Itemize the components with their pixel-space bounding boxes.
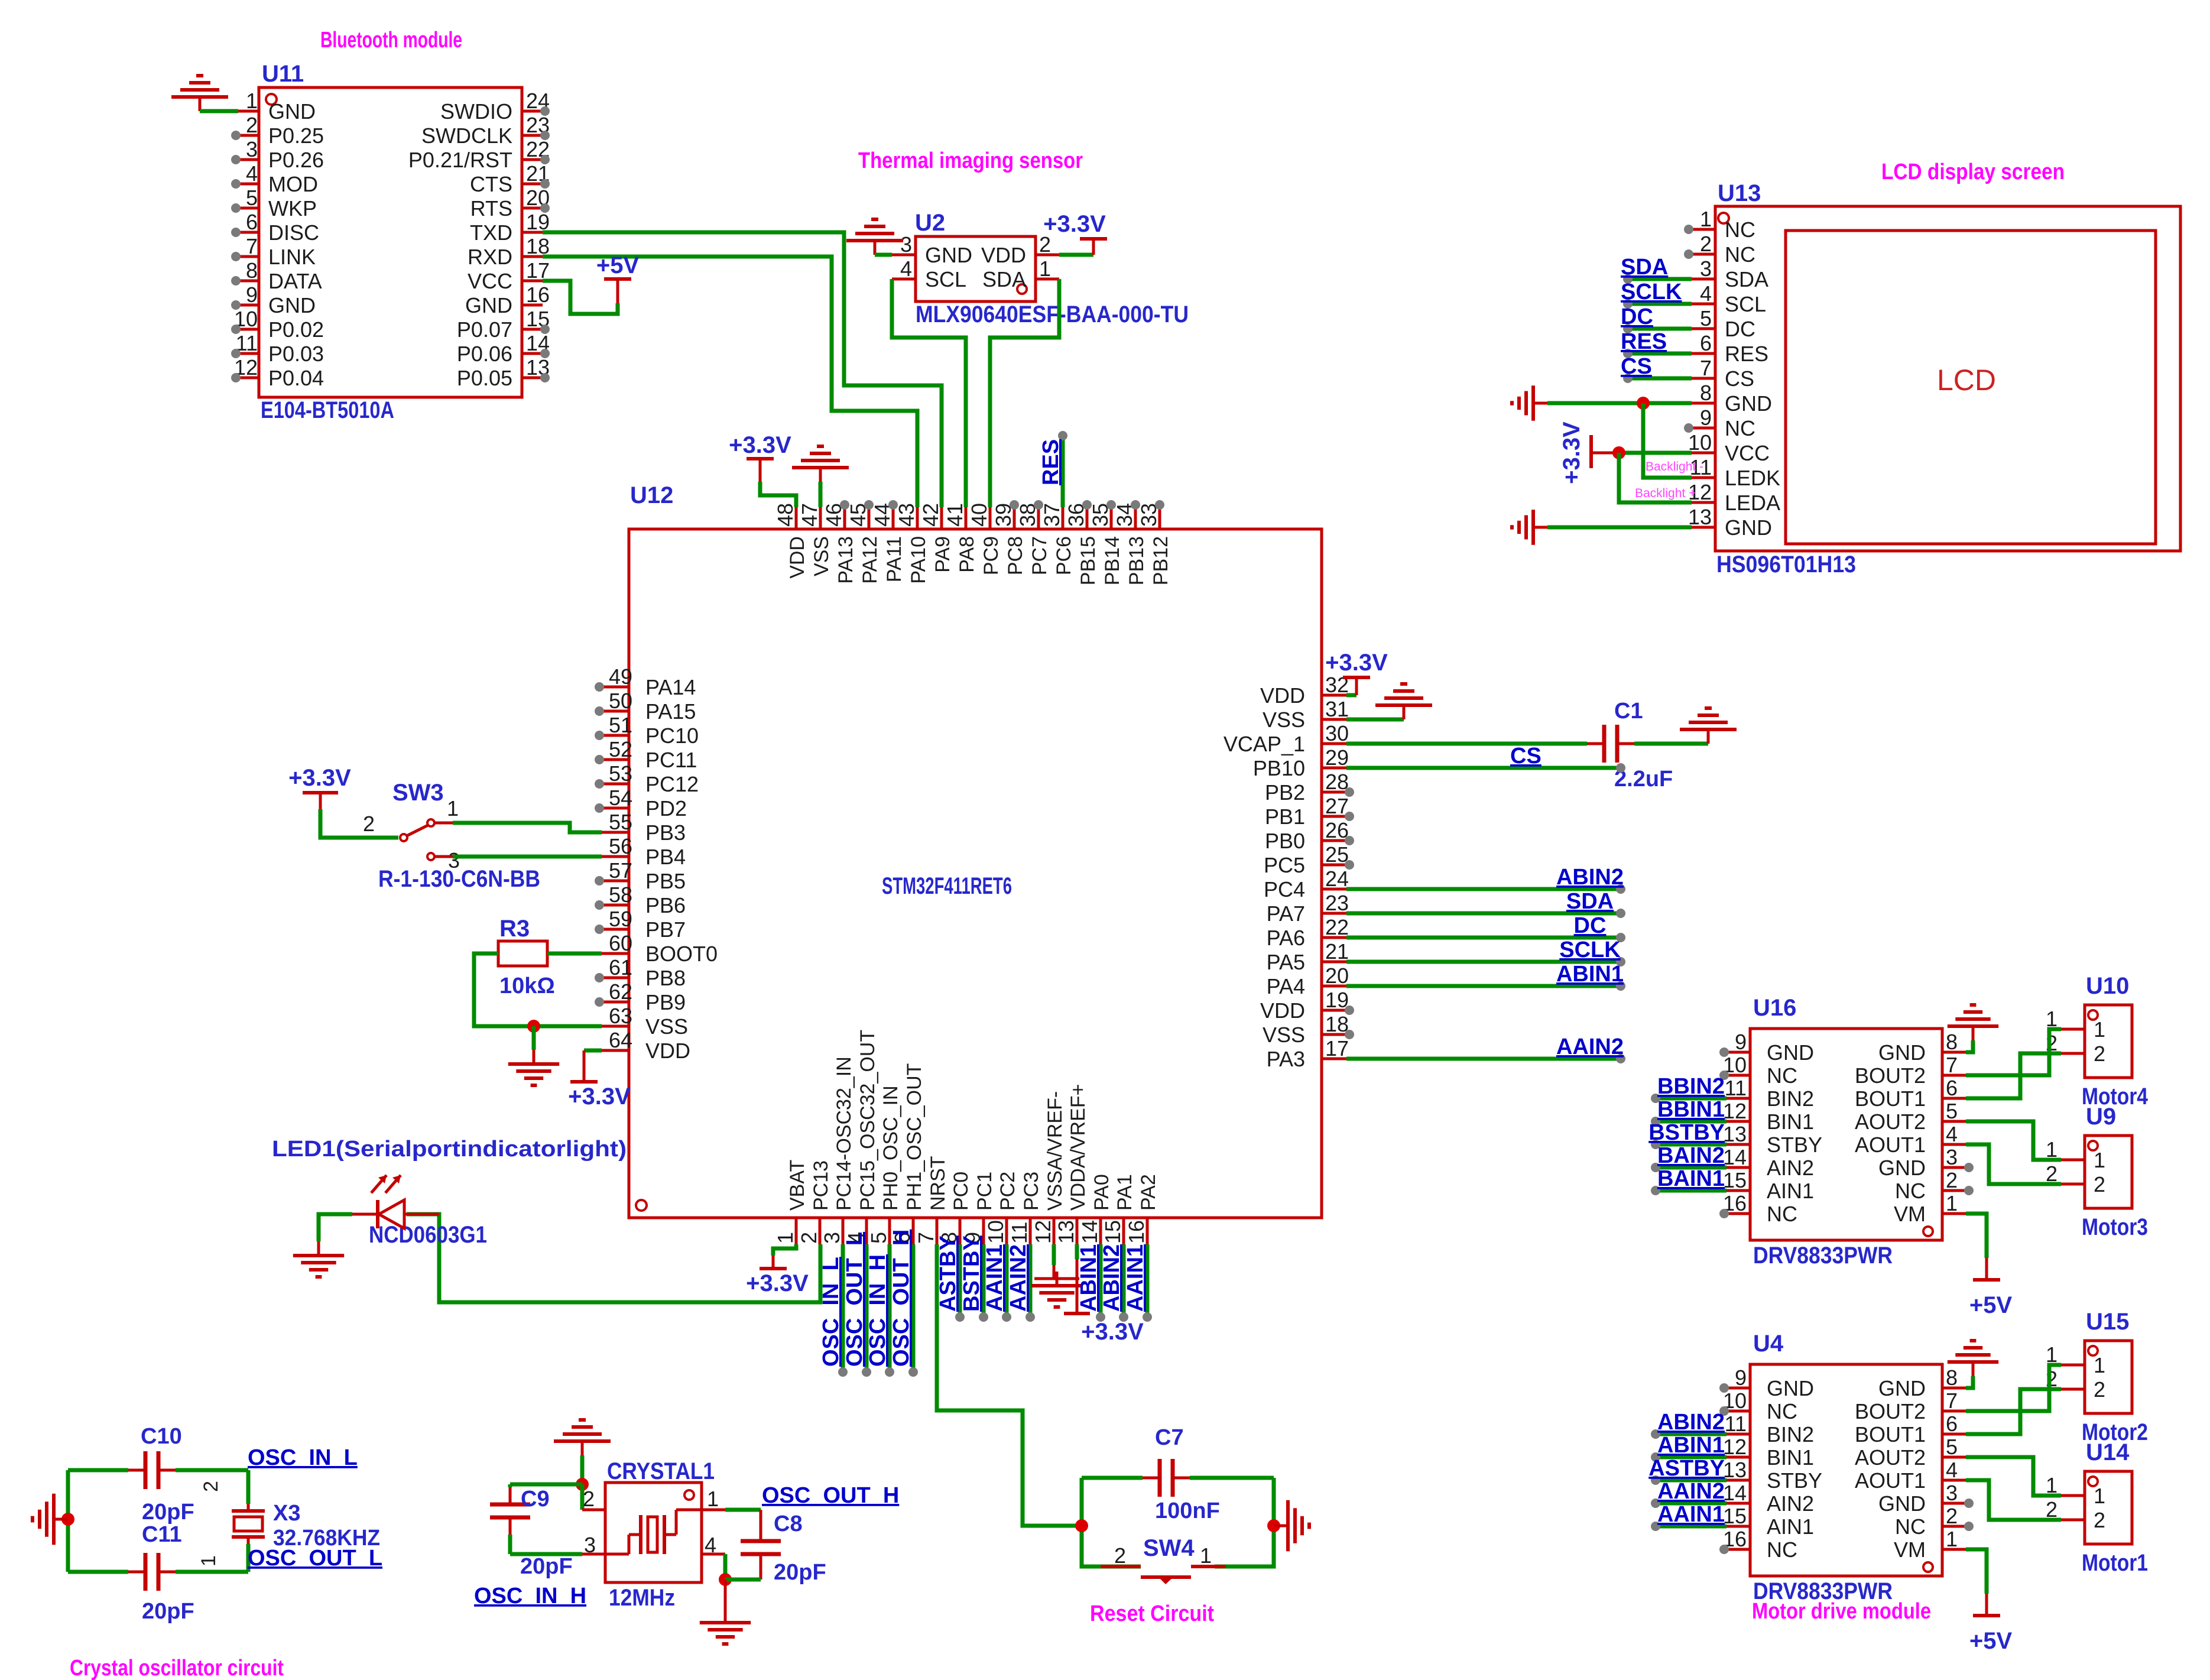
svg-text:PA0: PA0 bbox=[1091, 1174, 1113, 1211]
wire R3 to U12 BOOT0 bbox=[547, 952, 602, 956]
svg-text:60: 60 bbox=[609, 931, 632, 955]
svg-text:20pF: 20pF bbox=[520, 1554, 573, 1579]
svg-text:54: 54 bbox=[609, 786, 632, 810]
wire C9 bottom to CRYSTAL1 pin 3 bbox=[510, 1552, 582, 1556]
U11 pin 19 TXD bbox=[522, 231, 543, 234]
U12 pin 48 VDD (top) bbox=[795, 507, 798, 529]
svg-text:PA10: PA10 bbox=[907, 536, 930, 584]
svg-text:8: 8 bbox=[246, 258, 258, 283]
wire U11 TXD to U12 PA9 bbox=[543, 232, 942, 507]
svg-text:SCL: SCL bbox=[925, 267, 966, 291]
svg-text:OSC_IN_L: OSC_IN_L bbox=[819, 1257, 843, 1367]
U11 pin 22 P0.21/RST bbox=[522, 158, 543, 161]
svg-text:VSS: VSS bbox=[1263, 708, 1305, 732]
U11 pin 3 P0.26 bbox=[238, 158, 259, 161]
power +3.3V at U12 pin 13 VDDA bbox=[1075, 1244, 1079, 1259]
power +5V at U16 VM pin 1 bbox=[1966, 1214, 1987, 1258]
U12 pin 3 PC14-OSC32_IN (bottom) bbox=[842, 1219, 845, 1244]
svg-text:+3.3V: +3.3V bbox=[1559, 421, 1585, 484]
svg-text:4: 4 bbox=[1946, 1122, 1958, 1146]
svg-text:OSC_OUT_H: OSC_OUT_H bbox=[889, 1230, 914, 1367]
svg-text:RES: RES bbox=[1039, 439, 1063, 485]
wire to CRYSTAL1 pin 2 bbox=[580, 1484, 585, 1510]
U16 pin 14 AIN2 bbox=[1727, 1166, 1750, 1169]
svg-text:AIN2: AIN2 bbox=[1767, 1156, 1814, 1180]
svg-text:PB4: PB4 bbox=[645, 845, 686, 869]
wire SW3 pin3 to U12 PB4 bbox=[434, 855, 453, 858]
svg-text:9: 9 bbox=[246, 283, 258, 307]
svg-text:PA15: PA15 bbox=[645, 699, 696, 724]
ground at U13 pin 13 GND bbox=[1533, 526, 1547, 529]
svg-text:2: 2 bbox=[1946, 1504, 1958, 1528]
svg-text:+3.3V: +3.3V bbox=[568, 1084, 631, 1110]
left rail wire bbox=[66, 1470, 70, 1572]
U12 pin 15 PA1 (bottom) bbox=[1122, 1219, 1125, 1244]
svg-text:P0.21/RST: P0.21/RST bbox=[408, 148, 512, 172]
U12 pin 25 PC5 (right) bbox=[1322, 864, 1346, 867]
U12 pin 35 PB14 (top) bbox=[1110, 507, 1113, 529]
U12 pin 20 PA4 (right) bbox=[1322, 985, 1346, 988]
net label SDA at U12 pin 23 bbox=[1346, 912, 1620, 916]
svg-text:AOUT2: AOUT2 bbox=[1855, 1110, 1926, 1134]
U4 pin 6 BOUT1 bbox=[1942, 1433, 1966, 1436]
svg-text:AIN1: AIN1 bbox=[1767, 1179, 1814, 1203]
svg-text:Reset Circuit: Reset Circuit bbox=[1090, 1601, 1214, 1626]
svg-text:12MHz: 12MHz bbox=[609, 1585, 675, 1611]
svg-text:SWDCLK: SWDCLK bbox=[421, 124, 512, 148]
svg-text:8: 8 bbox=[1700, 381, 1712, 405]
U2 pin 4 SCL stub bbox=[892, 278, 916, 281]
net OSC_OUT_L wire at U12 pin 4 bbox=[865, 1244, 869, 1370]
U12 pin 18 VSS (right) bbox=[1322, 1033, 1346, 1036]
U12 pin 36 PB15 (top) bbox=[1086, 507, 1089, 529]
svg-text:P0.06: P0.06 bbox=[457, 342, 512, 366]
svg-text:R-1-130-C6N-BB: R-1-130-C6N-BB bbox=[378, 866, 540, 892]
svg-text:1: 1 bbox=[773, 1232, 797, 1244]
U12 pin 31 VSS (right) bbox=[1322, 718, 1346, 721]
net label DC at U12 pin 22 bbox=[1346, 936, 1620, 940]
svg-text:AOUT1: AOUT1 bbox=[1855, 1468, 1926, 1493]
power +3.3V at U12 pin 1 VBAT bbox=[773, 1244, 796, 1256]
svg-text:GND: GND bbox=[1767, 1376, 1814, 1400]
U12 pin 29 PB10 (right) bbox=[1322, 767, 1346, 770]
net OSC_IN_L wire at U12 pin 3 bbox=[841, 1244, 845, 1370]
svg-text:ABIN2: ABIN2 bbox=[1556, 865, 1624, 890]
svg-text:61: 61 bbox=[609, 955, 632, 980]
svg-text:57: 57 bbox=[609, 858, 632, 883]
svg-text:OSC_IN_H: OSC_IN_H bbox=[865, 1254, 890, 1367]
wire ground to U13 pin 13 bbox=[1547, 526, 1692, 530]
svg-text:63: 63 bbox=[609, 1004, 632, 1028]
svg-text:PC2: PC2 bbox=[997, 1172, 1019, 1211]
svg-text:PA12: PA12 bbox=[859, 536, 881, 584]
svg-text:20: 20 bbox=[1325, 964, 1349, 988]
svg-text:C8: C8 bbox=[774, 1512, 803, 1536]
svg-text:+3.3V: +3.3V bbox=[288, 765, 351, 791]
ground at U11 pin 1 bbox=[199, 97, 202, 111]
svg-text:VCAP_1: VCAP_1 bbox=[1224, 732, 1305, 756]
svg-text:AAIN2: AAIN2 bbox=[1006, 1244, 1031, 1312]
svg-text:1: 1 bbox=[246, 89, 258, 113]
net AAIN1 wire at U12 pin 10 bbox=[1005, 1244, 1009, 1315]
IC U12 STM32F411RET6 body bbox=[629, 529, 1322, 1218]
junction on VCC wire bbox=[1612, 446, 1625, 459]
svg-text:U14: U14 bbox=[2086, 1439, 2130, 1465]
svg-text:20pF: 20pF bbox=[774, 1560, 826, 1585]
svg-text:PA11: PA11 bbox=[883, 536, 906, 582]
svg-text:RES: RES bbox=[1621, 329, 1667, 354]
svg-text:62: 62 bbox=[609, 980, 632, 1004]
svg-text:3: 3 bbox=[1946, 1481, 1958, 1505]
svg-text:5: 5 bbox=[246, 186, 258, 210]
svg-text:11: 11 bbox=[1725, 1076, 1747, 1100]
svg-text:PC3: PC3 bbox=[1020, 1172, 1043, 1211]
svg-text:24: 24 bbox=[1325, 867, 1349, 891]
svg-text:PB12: PB12 bbox=[1150, 536, 1172, 585]
svg-text:NC: NC bbox=[1767, 1202, 1797, 1226]
U4 pin 13 STBY bbox=[1727, 1479, 1750, 1482]
svg-text:4: 4 bbox=[1946, 1458, 1958, 1482]
U11 pin 14 P0.06 bbox=[522, 352, 543, 355]
svg-text:PB15: PB15 bbox=[1077, 536, 1099, 585]
svg-text:PA14: PA14 bbox=[645, 675, 696, 699]
svg-text:OSC_OUT_L: OSC_OUT_L bbox=[248, 1546, 382, 1571]
junction at left rail bbox=[61, 1513, 74, 1526]
svg-text:C9: C9 bbox=[521, 1487, 550, 1512]
svg-text:LED1(Serialportindicatorlight): LED1(Serialportindicatorlight) bbox=[272, 1137, 627, 1162]
svg-text:VSS: VSS bbox=[645, 1014, 688, 1039]
U12 pin 57 PB5 (left) bbox=[602, 880, 629, 883]
svg-text:U11: U11 bbox=[262, 61, 304, 87]
U11 pin 7 LINK bbox=[238, 255, 259, 258]
svg-text:49: 49 bbox=[609, 664, 632, 689]
resistor R3 10k bbox=[498, 941, 547, 966]
svg-text:1: 1 bbox=[2094, 1148, 2105, 1172]
svg-text:PA8: PA8 bbox=[956, 536, 978, 573]
U13 pin 4 SCL bbox=[1692, 303, 1715, 306]
U12 pin 42 PA9 (top) bbox=[940, 507, 943, 529]
svg-text:10: 10 bbox=[984, 1220, 1008, 1244]
wire +3.3V to U13 VCC pin 10 bbox=[1617, 451, 1692, 455]
svg-text:SDA: SDA bbox=[1621, 255, 1668, 280]
U12 pin 2 PC13 (bottom) bbox=[819, 1219, 822, 1244]
U4 pin 1 VM bbox=[1942, 1548, 1966, 1551]
net label BAIN2 wire to U16 bbox=[1656, 1166, 1727, 1170]
svg-text:2: 2 bbox=[363, 812, 375, 836]
U12 pin 59 PB7 (left) bbox=[602, 928, 629, 931]
svg-text:3: 3 bbox=[900, 232, 912, 257]
svg-text:WKP: WKP bbox=[268, 196, 317, 220]
svg-text:AAIN2: AAIN2 bbox=[1657, 1479, 1725, 1504]
svg-text:GND: GND bbox=[1878, 1040, 1926, 1065]
U16 pin 4 AOUT1 bbox=[1942, 1143, 1966, 1146]
svg-text:6: 6 bbox=[1946, 1076, 1958, 1100]
svg-text:1: 1 bbox=[197, 1555, 220, 1567]
svg-text:3: 3 bbox=[820, 1232, 844, 1244]
capacitor C10 20pF bbox=[68, 1468, 128, 1473]
U12 pin 41 PA8 (top) bbox=[965, 507, 968, 529]
svg-text:BOOT0: BOOT0 bbox=[645, 942, 718, 966]
U13 pin 7 CS bbox=[1692, 377, 1715, 380]
svg-text:BIN2: BIN2 bbox=[1767, 1087, 1814, 1111]
ground at U2 pin 3 bbox=[874, 241, 877, 255]
svg-text:U15: U15 bbox=[2086, 1309, 2129, 1335]
connector U10 Motor4 body bbox=[2085, 1005, 2132, 1078]
svg-text:P0.04: P0.04 bbox=[268, 366, 324, 390]
U4 pin 4 AOUT1 bbox=[1942, 1479, 1966, 1482]
U12 pin 43 PA10 (top) bbox=[916, 507, 919, 529]
U13 pin 5 DC bbox=[1692, 327, 1715, 330]
IC U13 LCD body bbox=[1715, 206, 2180, 551]
svg-text:GND: GND bbox=[268, 99, 316, 124]
svg-text:CRYSTAL1: CRYSTAL1 bbox=[607, 1458, 715, 1484]
CRYSTAL1 internal symbol bbox=[605, 1553, 629, 1556]
svg-text:BOUT1: BOUT1 bbox=[1855, 1422, 1926, 1447]
svg-text:SWDIO: SWDIO bbox=[440, 99, 512, 124]
U4 pin 14 AIN2 bbox=[1727, 1502, 1750, 1505]
svg-text:47: 47 bbox=[797, 503, 822, 527]
svg-text:PH0_OSC_IN: PH0_OSC_IN bbox=[880, 1085, 902, 1211]
U16 pin 9 GND bbox=[1727, 1051, 1750, 1054]
svg-text:GND: GND bbox=[1878, 1156, 1926, 1180]
svg-text:PA13: PA13 bbox=[835, 536, 857, 584]
svg-text:PC0: PC0 bbox=[950, 1172, 972, 1211]
svg-text:5: 5 bbox=[867, 1232, 891, 1244]
wire U2 SCL to U12 PA9 pin41 bbox=[892, 279, 966, 507]
ground at U16 pin 8 GND bbox=[1966, 1040, 1973, 1052]
svg-text:5: 5 bbox=[1700, 306, 1712, 330]
svg-text:ASTBY: ASTBY bbox=[1648, 1456, 1725, 1481]
svg-text:X3: X3 bbox=[273, 1501, 300, 1526]
svg-text:Motor1: Motor1 bbox=[2082, 1550, 2148, 1576]
svg-text:30: 30 bbox=[1325, 721, 1349, 745]
U12 pin 5 PH0_OSC_IN (bottom) bbox=[888, 1219, 891, 1244]
svg-text:Backlight -: Backlight - bbox=[1646, 460, 1703, 473]
net label CS wire to U13 bbox=[1629, 377, 1692, 381]
svg-text:2: 2 bbox=[1946, 1168, 1958, 1192]
svg-text:3: 3 bbox=[246, 137, 258, 161]
svg-text:C1: C1 bbox=[1614, 699, 1643, 724]
svg-text:53: 53 bbox=[609, 761, 632, 786]
svg-text:GND: GND bbox=[465, 293, 512, 317]
svg-text:11: 11 bbox=[1725, 1412, 1747, 1436]
net label BBIN2 wire to U16 bbox=[1656, 1097, 1727, 1101]
svg-text:PB3: PB3 bbox=[645, 820, 686, 845]
U12 pin 12 VSSA/VREF- (bottom) bbox=[1053, 1219, 1056, 1244]
wire U12 PC13 to LED1 bbox=[407, 1214, 820, 1302]
svg-text:7: 7 bbox=[914, 1232, 938, 1244]
U13 pin 2 NC bbox=[1692, 253, 1715, 256]
svg-text:59: 59 bbox=[609, 907, 632, 931]
U12 pin 34 PB13 (top) bbox=[1134, 507, 1137, 529]
svg-text:P0.25: P0.25 bbox=[268, 124, 324, 148]
U12 pin 63 VSS (left) bbox=[602, 1025, 629, 1028]
svg-text:PB14: PB14 bbox=[1101, 536, 1124, 585]
svg-text:2: 2 bbox=[797, 1232, 821, 1244]
svg-text:GND: GND bbox=[1725, 391, 1772, 416]
svg-text:PB0: PB0 bbox=[1265, 829, 1305, 853]
U13 pin 13 GND bbox=[1692, 526, 1715, 529]
net label RES wire to U13 bbox=[1629, 352, 1692, 356]
ground above CRYSTAL1 bbox=[581, 1441, 584, 1455]
svg-text:LCD display screen: LCD display screen bbox=[1881, 160, 2065, 184]
U11 pin 21 CTS bbox=[522, 183, 543, 186]
svg-text:1: 1 bbox=[1946, 1191, 1958, 1215]
ground at C1 bbox=[1707, 729, 1710, 744]
U9 pin 1 bbox=[2061, 1159, 2085, 1162]
U13 pin 11 LEDK bbox=[1692, 476, 1715, 479]
U12 pin 23 PA7 (right) bbox=[1322, 912, 1346, 915]
svg-text:C11: C11 bbox=[142, 1522, 182, 1547]
svg-text:9: 9 bbox=[1735, 1030, 1747, 1054]
svg-text:VDD: VDD bbox=[1260, 683, 1305, 708]
U14 pin 2 bbox=[2061, 1519, 2085, 1522]
svg-text:37: 37 bbox=[1040, 503, 1064, 527]
U12 pin 37 PC6 (top) bbox=[1062, 507, 1065, 529]
svg-text:7: 7 bbox=[1946, 1053, 1958, 1077]
svg-text:PC1: PC1 bbox=[973, 1172, 996, 1211]
svg-text:5: 5 bbox=[1946, 1099, 1958, 1123]
U12 pin 7 NRST (bottom) bbox=[936, 1219, 939, 1244]
CRYSTAL1 pin 1 wire to C8 bbox=[702, 1509, 725, 1512]
svg-text:NC: NC bbox=[1725, 242, 1755, 267]
svg-text:1: 1 bbox=[2094, 1484, 2105, 1508]
power +3.3V at U12 pin 64 VDD bbox=[584, 1049, 602, 1053]
wire SW3 pin1 to U12 PB3 bbox=[434, 822, 453, 825]
U11 pin 16 GND bbox=[522, 304, 543, 307]
wire ground to U13 pin 8 bbox=[1547, 401, 1692, 406]
svg-text:AIN1: AIN1 bbox=[1767, 1514, 1814, 1539]
svg-text:PC6: PC6 bbox=[1053, 536, 1075, 575]
U12 pin 60 BOOT0 (left) bbox=[602, 952, 629, 955]
power +3.3V at U12 pin 48 VDD bbox=[760, 482, 796, 507]
U16 pin 13 STBY bbox=[1727, 1143, 1750, 1146]
U12 pin 52 PC11 (left) bbox=[602, 758, 629, 761]
svg-text:LEDA: LEDA bbox=[1725, 491, 1780, 515]
svg-text:PC11: PC11 bbox=[645, 748, 697, 772]
wire U4 BOUT1 to U15 pin2 bbox=[1966, 1389, 2061, 1434]
svg-text:CS: CS bbox=[1621, 354, 1652, 379]
svg-text:1: 1 bbox=[2094, 1017, 2105, 1042]
U16 pin 10 NC bbox=[1727, 1074, 1750, 1077]
U2 pin 3 GND stub bbox=[892, 254, 916, 257]
svg-text:Thermal imaging sensor: Thermal imaging sensor bbox=[858, 148, 1083, 173]
svg-text:GND: GND bbox=[268, 293, 316, 317]
IC U4 DRV8833PWR body bbox=[1750, 1364, 1942, 1576]
svg-text:P0.03: P0.03 bbox=[268, 342, 324, 366]
net ABIN2 wire at U12 pin 15 bbox=[1122, 1244, 1126, 1315]
U13 pin 8 GND bbox=[1692, 402, 1715, 405]
U4 pin 7 BOUT2 bbox=[1942, 1410, 1966, 1413]
U12 pin 21 PA5 (right) bbox=[1322, 961, 1346, 964]
svg-text:3: 3 bbox=[1946, 1145, 1958, 1169]
svg-text:BAIN2: BAIN2 bbox=[1657, 1143, 1725, 1168]
U12 pin 54 PD2 (left) bbox=[602, 807, 629, 810]
svg-text:AIN2: AIN2 bbox=[1767, 1491, 1814, 1516]
U13 pin 3 SDA bbox=[1692, 278, 1715, 281]
svg-text:DC: DC bbox=[1621, 304, 1653, 329]
svg-text:BAIN1: BAIN1 bbox=[1657, 1166, 1725, 1191]
svg-text:VM: VM bbox=[1894, 1538, 1926, 1562]
wire U4 BOUT2 to U15 pin1 bbox=[1966, 1365, 2061, 1411]
svg-text:+5V: +5V bbox=[1969, 1628, 2013, 1654]
U2 pin 1 SDA stub bbox=[1036, 278, 1059, 281]
U10 pin 1 bbox=[2061, 1028, 2085, 1031]
ground at U12 pin 47 VSS bbox=[819, 482, 823, 507]
net label BBIN1 wire to U16 bbox=[1656, 1120, 1727, 1124]
U12 pin 33 PB12 (top) bbox=[1158, 507, 1161, 529]
svg-text:DC: DC bbox=[1725, 317, 1755, 341]
svg-text:52: 52 bbox=[609, 737, 632, 761]
svg-text:AAIN2: AAIN2 bbox=[1556, 1034, 1624, 1059]
LCD screen rectangle bbox=[1786, 231, 2156, 544]
svg-text:BOUT2: BOUT2 bbox=[1855, 1063, 1926, 1088]
U11 pin 2 P0.25 bbox=[238, 134, 259, 137]
U12 pin 32 VDD (right) bbox=[1322, 694, 1346, 697]
svg-text:22: 22 bbox=[1325, 915, 1349, 939]
svg-text:+5V: +5V bbox=[596, 252, 640, 278]
U11 pin 15 P0.07 bbox=[522, 328, 543, 331]
U16 pin 1 VM bbox=[1942, 1212, 1966, 1215]
U11 pin 5 WKP bbox=[238, 207, 259, 210]
U11 pin 18 RXD bbox=[522, 255, 543, 258]
svg-text:RXD: RXD bbox=[468, 245, 512, 269]
svg-text:3: 3 bbox=[1700, 257, 1712, 281]
svg-text:1: 1 bbox=[1200, 1543, 1212, 1568]
reset loop right wire bbox=[1215, 1478, 1274, 1567]
svg-text:PA7: PA7 bbox=[1267, 901, 1305, 926]
net label BSTBY wire to U16 bbox=[1656, 1143, 1727, 1147]
svg-text:PB10: PB10 bbox=[1253, 756, 1305, 780]
svg-text:ABIN1: ABIN1 bbox=[1657, 1433, 1725, 1458]
svg-text:DRV8833PWR: DRV8833PWR bbox=[1753, 1243, 1893, 1269]
U12 pin 50 PA15 (left) bbox=[602, 710, 629, 713]
svg-text:11: 11 bbox=[1007, 1222, 1031, 1244]
svg-text:TXD: TXD bbox=[470, 220, 512, 245]
svg-text:GND: GND bbox=[1725, 515, 1772, 540]
U12 pin 19 VDD (right) bbox=[1322, 1009, 1346, 1012]
U2 pin 2 VDD stub bbox=[1036, 254, 1059, 257]
svg-text:SDA: SDA bbox=[982, 267, 1026, 291]
svg-text:SDA: SDA bbox=[1725, 267, 1768, 291]
svg-text:BSTBY: BSTBY bbox=[1648, 1120, 1725, 1145]
svg-text:2: 2 bbox=[583, 1487, 595, 1511]
svg-text:VCC: VCC bbox=[468, 269, 512, 293]
U11 pin 20 RTS bbox=[522, 207, 543, 210]
U12 pin 58 PB6 (left) bbox=[602, 904, 629, 907]
U11 pin 4 MOD bbox=[238, 183, 259, 186]
ground at LED1 bbox=[317, 1241, 320, 1256]
svg-text:AAIN1: AAIN1 bbox=[1657, 1502, 1725, 1527]
svg-text:SCLK: SCLK bbox=[1621, 280, 1682, 304]
svg-text:1: 1 bbox=[707, 1487, 719, 1511]
svg-text:PB6: PB6 bbox=[645, 893, 686, 917]
svg-text:6: 6 bbox=[1946, 1412, 1958, 1436]
net label BAIN1 wire to U16 bbox=[1656, 1189, 1727, 1193]
svg-text:P0.05: P0.05 bbox=[457, 366, 512, 390]
wire junction to C8 bottom bbox=[725, 1578, 761, 1582]
IC U11 E104-BT5010A body bbox=[259, 87, 522, 397]
svg-text:43: 43 bbox=[894, 503, 919, 527]
U4 pin 15 AIN1 bbox=[1727, 1525, 1750, 1528]
U12 pin 27 PB1 (right) bbox=[1322, 815, 1346, 818]
svg-text:PB1: PB1 bbox=[1265, 805, 1305, 829]
U12 pin 64 VDD (left) bbox=[602, 1049, 629, 1052]
svg-text:PC13: PC13 bbox=[810, 1160, 832, 1211]
U12 pin 62 PB9 (left) bbox=[602, 1001, 629, 1004]
capacitor C9 20pF bbox=[508, 1484, 512, 1487]
svg-text:SCLK: SCLK bbox=[1559, 938, 1621, 962]
